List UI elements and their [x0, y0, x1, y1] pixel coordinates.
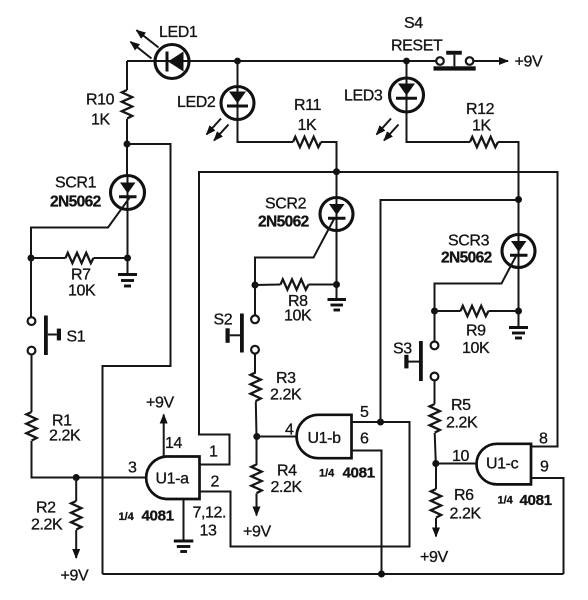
- wire junction to S3: [434, 311, 436, 342]
- wire U1-b pin6 to bottom bus: [352, 451, 382, 575]
- wire R3 to pin4 junction: [255, 402, 258, 437]
- ground U1-a pins 7,12,13: [174, 499, 194, 552]
- LED1 emission arrows: [131, 30, 159, 58]
- svg-text:R10: R10: [86, 92, 115, 109]
- node junction R9/cathode: [515, 308, 522, 315]
- svg-text:1/4: 1/4: [498, 495, 514, 507]
- svg-text:+9V: +9V: [420, 549, 448, 566]
- LED3 emission arrows: [377, 119, 399, 141]
- resistor R10: [122, 90, 132, 119]
- ground SCR2 cathode: [328, 300, 347, 311]
- svg-text:+9V: +9V: [515, 54, 543, 71]
- wire SCR3 gate: [435, 256, 517, 311]
- svg-text:1K: 1K: [298, 117, 317, 134]
- resistor R4: [251, 437, 261, 516]
- svg-text:9: 9: [540, 459, 549, 476]
- resistor R9: [435, 306, 519, 316]
- wire R10 to SCR1 anode: [126, 119, 128, 176]
- wire LED2 branch: [238, 61, 294, 142]
- svg-text:R4: R4: [277, 463, 297, 480]
- node junction gate/R8/S2: [252, 282, 259, 289]
- node junction R10/SCR1/loop: [124, 141, 131, 148]
- node junction R1/R2/pin3: [73, 474, 80, 481]
- svg-text:2N5062: 2N5062: [258, 214, 309, 231]
- wire top +9V rail: [127, 60, 436, 62]
- svg-text:R2: R2: [36, 500, 56, 517]
- ground SCR3 cathode: [509, 328, 528, 339]
- svg-text:4081: 4081: [520, 492, 553, 509]
- op-amp gate U1-c: [476, 444, 531, 485]
- switch S4: [434, 51, 476, 71]
- svg-text:LED1: LED1: [159, 24, 198, 41]
- switch S2: [226, 314, 259, 354]
- svg-text:2.2K: 2.2K: [450, 506, 482, 523]
- svg-text:+9V: +9V: [146, 395, 174, 412]
- svg-text:4081: 4081: [343, 465, 376, 482]
- svg-text:LED3: LED3: [344, 88, 383, 105]
- svg-text:SCR1: SCR1: [55, 175, 97, 192]
- svg-text:6: 6: [360, 431, 369, 448]
- wire SCR2 gate: [255, 219, 334, 285]
- LED2 emission arrows: [207, 119, 229, 141]
- switch S1: [28, 316, 61, 356]
- svg-text:R12: R12: [466, 101, 495, 118]
- LED LED2: [221, 87, 254, 120]
- wire R10 branch from rail: [126, 61, 128, 90]
- svg-text:5: 5: [360, 404, 369, 421]
- svg-text:13: 13: [200, 523, 217, 540]
- SCR SCR1 2N5062: [111, 176, 145, 274]
- node junction R8/cathode: [333, 281, 340, 288]
- wire R5 to pin10 junction: [435, 433, 436, 464]
- svg-text:+9V: +9V: [243, 524, 271, 541]
- wire S1 to R1: [31, 355, 33, 413]
- svg-text:14: 14: [165, 435, 182, 452]
- ground SCR1 cathode: [118, 275, 137, 287]
- node junction R7/cathode: [124, 255, 131, 262]
- wire junction to S1: [30, 258, 32, 317]
- svg-text:3: 3: [128, 460, 137, 477]
- svg-text:S2: S2: [214, 312, 233, 329]
- SCR SCR2 2N5062: [320, 198, 353, 299]
- node junction pin6/bottom bus: [378, 571, 385, 578]
- svg-text:S3: S3: [393, 341, 412, 358]
- svg-text:R9: R9: [466, 323, 486, 340]
- svg-text:U1-b: U1-b: [308, 430, 342, 447]
- svg-text:R6: R6: [454, 487, 474, 504]
- resistor R1: [26, 412, 36, 441]
- wire pin 4: [257, 436, 297, 438]
- wire U1-c pin9 to bottom bus: [531, 478, 564, 574]
- svg-text:1K: 1K: [472, 118, 491, 135]
- resistor R5: [430, 404, 440, 433]
- switch S3: [404, 341, 438, 381]
- svg-text:RESET: RESET: [391, 38, 443, 55]
- svg-text:10K: 10K: [462, 340, 490, 357]
- wire S2 to R3: [254, 354, 256, 373]
- wire pin 10: [436, 463, 477, 465]
- svg-text:+9V: +9V: [61, 568, 89, 585]
- svg-text:R5: R5: [451, 397, 471, 414]
- wire S3 to R5: [434, 380, 436, 404]
- node junction gate/R9/S3: [431, 308, 438, 315]
- resistor R12: [470, 137, 498, 147]
- resistor R8: [255, 279, 337, 289]
- svg-text:10K: 10K: [68, 283, 96, 300]
- SCR SCR3 2N5062: [502, 235, 535, 327]
- resistor R6: [431, 464, 441, 537]
- svg-text:1/4: 1/4: [319, 468, 335, 480]
- svg-text:1K: 1K: [91, 112, 110, 129]
- resistor R3: [250, 373, 260, 402]
- wire loop SCR1 anode to bottom left: [103, 144, 171, 574]
- svg-text:2.2K: 2.2K: [270, 387, 302, 404]
- wire R1 to U1-a pin3: [32, 441, 146, 478]
- LED LED3: [390, 78, 424, 112]
- node junction SCR3 anode: [515, 196, 522, 203]
- LED LED1: [155, 45, 189, 79]
- wire R11 to SCR2 anode: [321, 142, 337, 198]
- svg-text:R7: R7: [71, 267, 91, 284]
- wire LED3 branch: [407, 61, 471, 142]
- svg-text:2.2K: 2.2K: [271, 479, 303, 496]
- wire SCR1 gate: [31, 197, 130, 258]
- svg-text:1: 1: [209, 444, 218, 461]
- svg-text:2N5062: 2N5062: [50, 194, 101, 211]
- svg-text:8: 8: [539, 431, 548, 448]
- node junction gate/R7/S1: [28, 255, 35, 262]
- svg-text:4081: 4081: [142, 508, 175, 525]
- svg-text:2N5062: 2N5062: [441, 250, 492, 267]
- node junction R3/R4/pin4: [253, 433, 260, 440]
- wire R12 to SCR3 anode: [498, 142, 519, 235]
- node junction rail/LED3/S4: [403, 58, 410, 65]
- op-amp gate U1-b: [297, 415, 352, 458]
- svg-text:R3: R3: [276, 370, 296, 387]
- node junction pin5: [377, 419, 384, 426]
- svg-text:U1-c: U1-c: [486, 456, 519, 473]
- svg-text:10: 10: [452, 448, 469, 465]
- wire rail arrow to +9V: [473, 60, 508, 62]
- op-amp gate U1-a: [146, 457, 199, 500]
- resistor R11: [293, 137, 321, 147]
- wire pin5 junction to SCR3 anode: [381, 200, 519, 422]
- svg-text:2: 2: [211, 474, 220, 491]
- svg-text:SCR3: SCR3: [448, 233, 490, 250]
- svg-text:U1-a: U1-a: [156, 471, 190, 488]
- wire junction to S2: [254, 285, 256, 315]
- wire U1-a pin2 / U1-b pin5 net: [200, 422, 410, 547]
- svg-text:2.2K: 2.2K: [49, 428, 81, 445]
- wire pin14 +9V arrow: [163, 415, 165, 457]
- resistor R7: [31, 253, 128, 263]
- svg-text:7,12.: 7,12.: [193, 505, 227, 522]
- node junction rail/LED2: [234, 58, 241, 65]
- wire bottom bus: [103, 573, 564, 575]
- node junction R5/R6/pin10: [432, 460, 439, 467]
- svg-text:R11: R11: [294, 97, 321, 114]
- wire U1-a pin1 / top loop / U1-c pin8 net: [199, 172, 558, 465]
- svg-text:LED2: LED2: [177, 94, 216, 111]
- svg-text:10K: 10K: [284, 308, 312, 325]
- svg-text:1/4: 1/4: [119, 511, 135, 523]
- svg-text:2.2K: 2.2K: [31, 517, 63, 534]
- svg-text:S1: S1: [67, 329, 86, 346]
- resistor R2: [71, 478, 81, 559]
- svg-text:SCR2: SCR2: [265, 196, 307, 213]
- svg-text:2.2K: 2.2K: [446, 415, 478, 432]
- node junction SCR2 anode / top loop: [333, 168, 340, 175]
- svg-text:S4: S4: [404, 15, 423, 32]
- svg-text:4: 4: [285, 422, 294, 439]
